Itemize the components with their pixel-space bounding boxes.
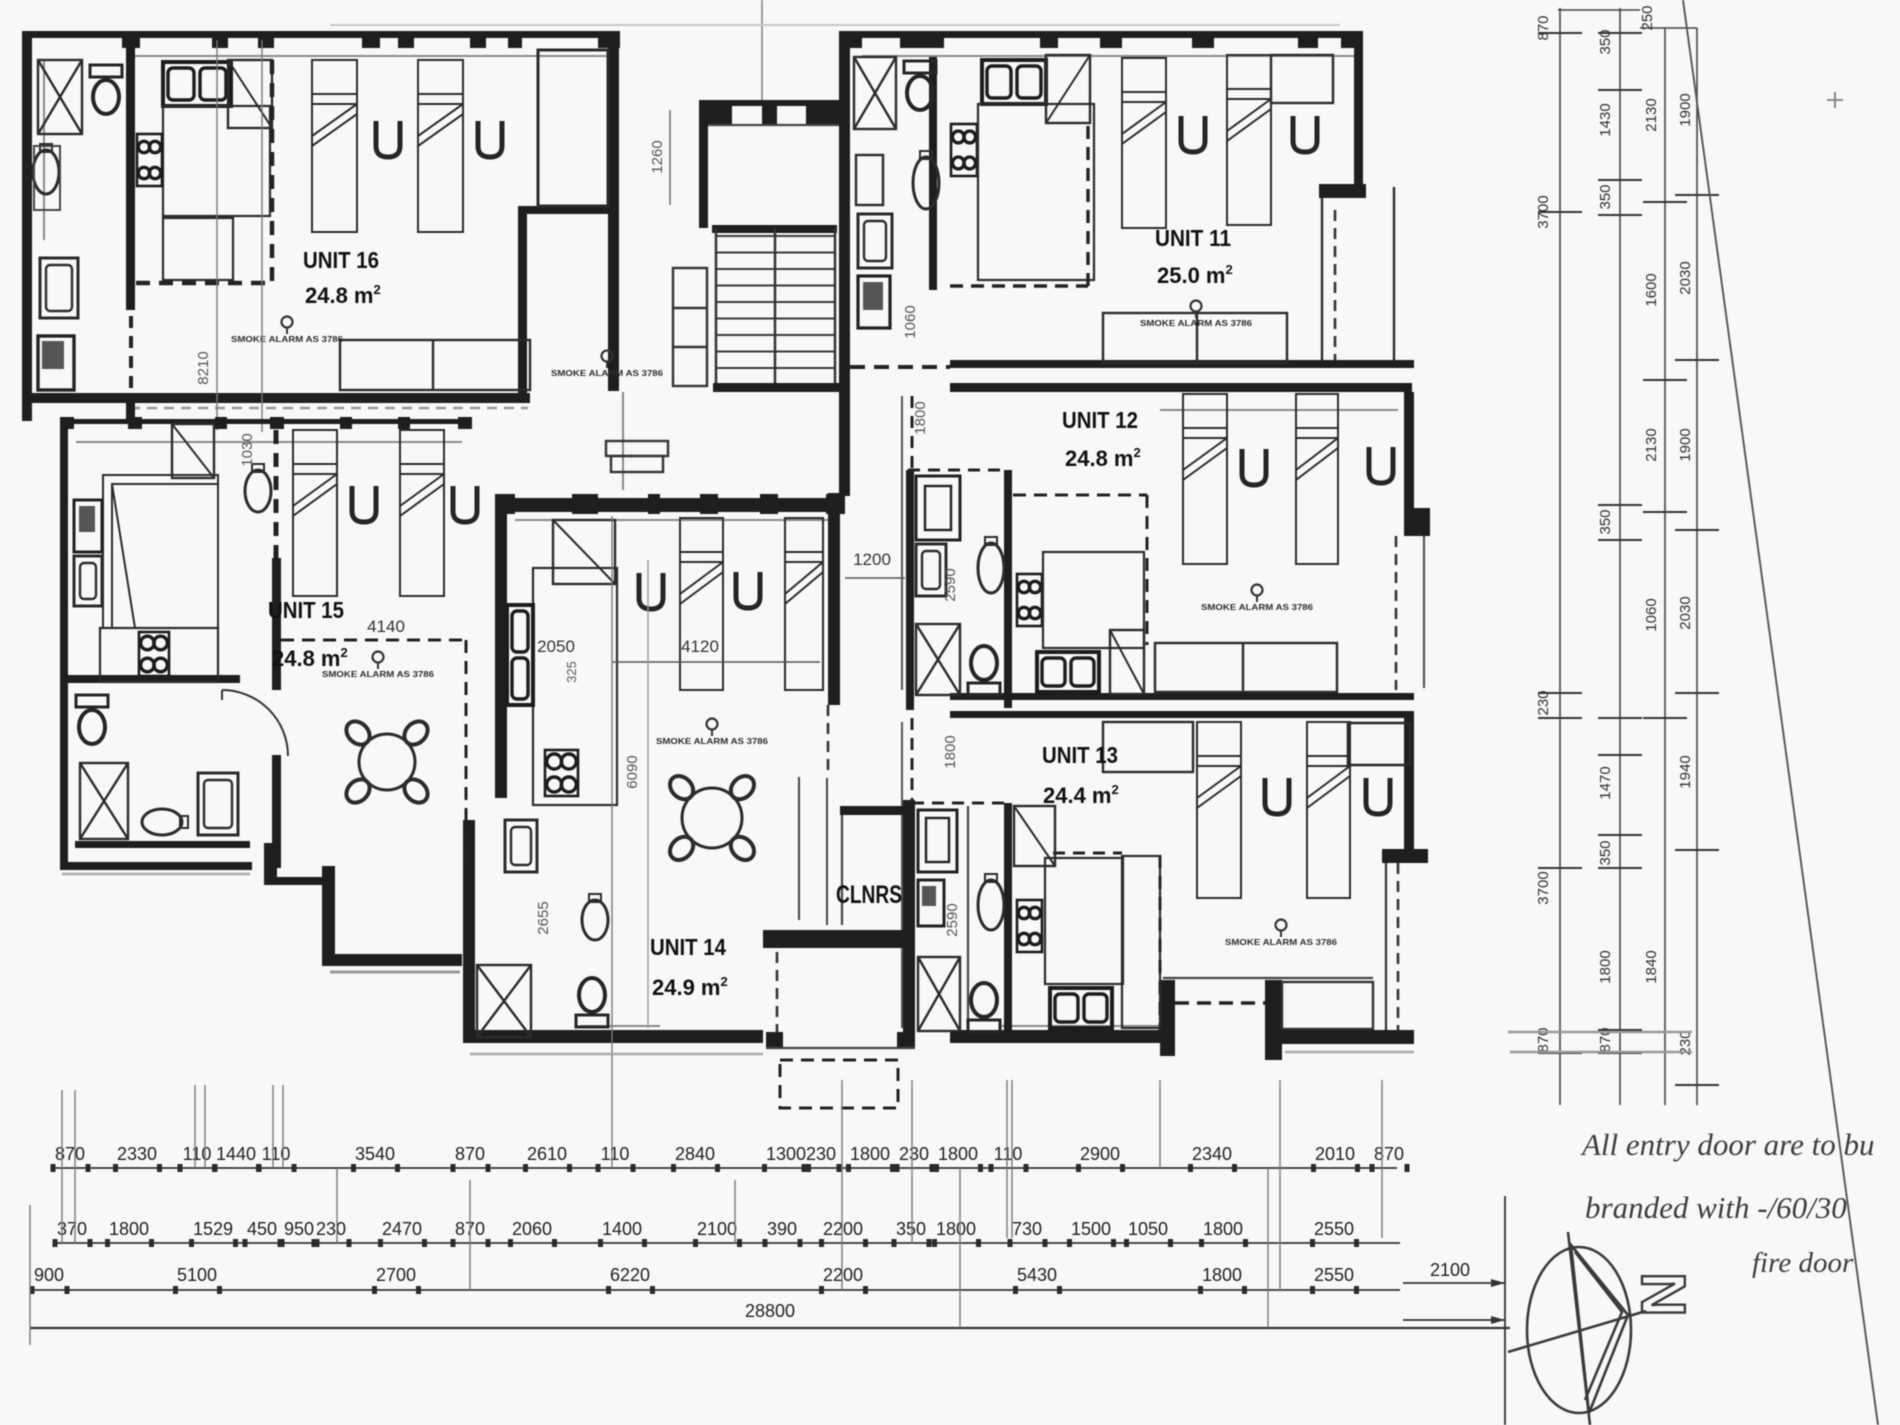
stove unit12 [1017,574,1042,626]
balcony dashed door unit11 [1334,210,1337,360]
chair 2 unit12 [1369,447,1393,483]
dashed corridor unit14 [827,705,830,776]
washing machine unit11 [858,214,892,268]
svg-text:1800: 1800 [912,401,929,434]
wardrobe unit16 [228,60,272,128]
svg-text:1500: 1500 [1071,1219,1111,1239]
bed 2 unit15 [400,430,444,596]
closet unit16 [538,50,608,206]
svg-text:2340: 2340 [1192,1144,1232,1164]
wall unit13 right lower double [1385,863,1387,1030]
bed 1 unit15 [293,430,337,596]
shower unit13 [918,957,960,1031]
svg-text:8210: 8210 [195,351,212,384]
wall unit15 lower bottom [322,954,462,966]
stove unit13 [1017,900,1042,952]
svg-text:3700: 3700 [1535,871,1552,904]
wall unit11 top [845,31,1363,38]
wall step unit16-unit15 [126,403,135,421]
cabinet unit11 [858,276,890,328]
stove unit11 [951,124,977,176]
smoke alarm unit11 [1140,301,1252,329]
svg-text:UNIT 13: UNIT 13 [1042,742,1118,768]
toilet unit14 [576,978,608,1027]
wall lobby left [699,100,708,228]
svg-text:6220: 6220 [610,1265,650,1285]
wardrobe unit15 [172,424,214,478]
svg-text:2100: 2100 [697,1219,737,1239]
svg-text:1940: 1940 [1677,755,1694,788]
wall unit15 step vertical [264,843,277,885]
dining table unit14 [665,771,758,864]
porch unit14 dashed left [776,952,779,1038]
laundry trough unit16 [38,336,74,390]
wall unit14 top [495,498,845,512]
kitchen sink unit11 [982,60,1046,104]
corridor thin lines [799,777,827,925]
svg-text:SMOKE ALARM AS 3786: SMOKE ALARM AS 3786 [322,669,434,679]
washer unit15 [198,773,238,835]
smoke alarm unit16 [231,317,343,345]
svg-text:24.8 m2: 24.8 m2 [272,645,348,671]
wall unit13 bath partition [1004,803,1012,1035]
svg-text:730: 730 [1012,1219,1042,1239]
basin unit12 [978,537,1004,593]
wardrobe unit14 [553,520,615,584]
chair 1 unit15 [352,486,376,522]
wall unit11 left [839,31,850,391]
dim row ticks [30,1164,1410,1294]
svg-text:1800: 1800 [938,1144,978,1164]
svg-text:2470: 2470 [382,1219,422,1239]
dim line 4120 [612,661,820,663]
svg-text:1300: 1300 [766,1144,806,1164]
svg-text:1800: 1800 [936,1219,976,1239]
right dim tick bars [1538,33,1719,1085]
svg-text:450: 450 [247,1219,277,1239]
basin unit16 [33,144,59,194]
bed 2 unit12 [1296,394,1338,564]
svg-text:350: 350 [1597,184,1614,209]
bed 1 unit11 [1122,58,1166,228]
basin nook unit15 [245,464,271,512]
wall unit13 right [1404,711,1414,851]
kitchen bench unit16 [163,106,270,216]
svg-text:28800: 28800 [745,1301,795,1321]
porch unit13 bottom wall [1282,1030,1414,1044]
svg-text:2590: 2590 [944,903,961,936]
svg-text:1800: 1800 [850,1144,890,1164]
wall lobby top [699,100,845,106]
kitchen bench unit12 [1043,552,1144,648]
wall under stairs [713,383,844,392]
arrowheads 2100 [1491,1279,1505,1324]
svg-text:UNIT 14: UNIT 14 [650,934,726,960]
wall unit12 bath partition [1004,470,1012,708]
washing machine unit16 [40,258,78,318]
wall unit15 inner dashed upper [274,430,279,560]
svg-text:2900: 2900 [1080,1144,1120,1164]
svg-text:350: 350 [896,1219,926,1239]
gray right tick row lines [1508,1032,1692,1052]
basin unit13 [978,874,1004,930]
svg-text:2130: 2130 [1643,98,1660,131]
svg-text:SMOKE ALARM AS 3786: SMOKE ALARM AS 3786 [656,736,768,746]
bed 1 unit14 [680,518,723,690]
dim row3 line [30,1289,1400,1291]
svg-text:2330: 2330 [117,1144,157,1164]
stair treads [716,236,835,385]
smoke alarm unit15 [322,652,434,680]
svg-text:110: 110 [994,1144,1023,1164]
chair 1 unit12 [1242,449,1266,485]
svg-text:SMOKE ALARM AS 3786: SMOKE ALARM AS 3786 [1201,602,1313,612]
window sill unit13 bottom [1000,1025,1160,1027]
porch unit13 bump room [1282,982,1373,1029]
wardrobe unit13 [1014,806,1055,866]
svg-text:1600: 1600 [1643,273,1660,306]
gray shadow under unit15 bottom [62,873,250,876]
dim row2 line [55,1242,1400,1244]
gray smear above top wall [330,24,1340,26]
plus mark [1827,92,1843,108]
chair 2 unit14 [736,572,760,608]
svg-text:5100: 5100 [177,1265,217,1285]
bed 2 unit16 [418,60,463,232]
svg-text:2030: 2030 [1677,261,1694,294]
wall unit11 right upper [1354,31,1363,197]
svg-text:2200: 2200 [823,1265,863,1285]
witness line 6090 [647,560,649,1028]
thin left wall unit13 [901,722,903,1028]
svg-text:1440: 1440 [216,1144,256,1164]
window jambs unit11 top [845,31,862,48]
kitchen dashed zone unit12 [1013,494,1147,497]
svg-text:6090: 6090 [624,755,641,788]
toilet unit15 [76,695,108,744]
svg-text:250: 250 [1639,5,1656,30]
porch unit14 top wall [763,930,903,948]
svg-text:1060: 1060 [902,305,919,338]
CLNRS closet walls [840,800,915,1048]
cabinet unit15 [74,556,102,606]
kitchen sink unit12 [1037,652,1099,692]
shower unit11 [854,57,896,129]
wall unit13 bottom [950,1030,1163,1043]
chair 2 unit16 [478,121,502,157]
svg-text:390: 390 [767,1219,797,1239]
party wall unit11 bottom [950,360,1414,368]
bed 2 unit14 [785,518,823,690]
dashed boundary unit15 mid [281,639,466,642]
kitchen sink unit13 [1050,988,1112,1028]
unit15 bed [103,475,218,628]
cabinet unit12 [916,476,960,540]
wall unit16 closet partition [518,206,619,214]
svg-text:230: 230 [1535,690,1552,715]
door arc unit15 [222,690,288,756]
right dim chain lines [1558,8,1697,1105]
kitchen bench unit15 [100,628,218,682]
svg-text:All entry door are to bu: All entry door are to bu [1580,1127,1874,1162]
party wall unit13 top b [950,711,1414,718]
smoke alarm unit13 [1225,920,1337,948]
cabinet unit13 [918,810,957,872]
wall unit15 inner lower [272,755,281,868]
witness line lobby x762 [761,0,763,100]
svg-text:230: 230 [316,1219,346,1239]
svg-text:SMOKE ALARM AS 3786: SMOKE ALARM AS 3786 [231,334,343,344]
svg-text:N: N [1628,1272,1697,1317]
bed 1 unit12 [1183,394,1227,564]
svg-text:2030: 2030 [1677,596,1694,629]
desk unit13 [1103,722,1193,772]
svg-text:110: 110 [183,1144,212,1164]
stove unit15 [139,632,169,676]
svg-text:2590: 2590 [942,568,959,601]
svg-text:2550: 2550 [1314,1219,1354,1239]
svg-text:350: 350 [1597,29,1614,54]
wall unit12 bath left [906,470,914,710]
svg-text:1800: 1800 [109,1219,149,1239]
CLNRS left line [841,815,843,925]
bench seat low unit13 [1122,856,1160,1028]
desk unit11 [1271,55,1333,103]
wall stair top [712,225,837,233]
svg-text:870: 870 [455,1144,485,1164]
basin unit11 [913,151,939,209]
svg-text:3540: 3540 [355,1144,395,1164]
wall unit11 bath partition [929,57,937,290]
wall unit15 inner upper [272,558,281,690]
dim row1 line [55,1167,1397,1169]
chair 2 unit11 [1293,116,1317,152]
balcony unit12 edge [1423,536,1425,688]
stair handrail block [673,268,707,386]
shower unit12 [916,624,960,695]
svg-text:2100: 2100 [1430,1260,1470,1280]
svg-text:2200: 2200 [823,1219,863,1239]
svg-text:950: 950 [284,1219,314,1239]
wardrobe unit12 [1110,630,1144,694]
svg-text:2050: 2050 [537,637,575,656]
wall unit12 top [950,383,1412,392]
bed 2 unit11 [1227,55,1271,225]
svg-text:2060: 2060 [512,1219,552,1239]
svg-text:25.0 m2: 25.0 m2 [1157,262,1233,288]
party wall unit12 bottom a [950,693,1414,700]
svg-text:870: 870 [1374,1144,1404,1164]
svg-text:UNIT 15: UNIT 15 [268,597,344,623]
kitchen bench unit14 [533,568,617,805]
dim line 1200 [845,577,905,579]
dim 2100 arrow line [1403,1196,1505,1425]
unit13 bottom thin line [1163,977,1373,979]
porch unit13 center wall [1265,980,1282,1060]
svg-text:24.4 m2: 24.4 m2 [1043,782,1119,808]
svg-text:1430: 1430 [1597,103,1614,136]
svg-text:110: 110 [601,1144,630,1164]
window sill unit16 left [43,60,45,240]
shelf unit11 [856,155,883,205]
svg-text:24.9 m2: 24.9 m2 [652,974,728,1000]
svg-text:SMOKE ALARM AS 3786: SMOKE ALARM AS 3786 [1140,318,1252,328]
thin left wall unit12 [901,396,903,690]
stair side rails [716,228,835,392]
svg-text:1529: 1529 [193,1219,233,1239]
wall unit14 left lower [463,820,475,1043]
svg-text:1900: 1900 [1677,93,1694,126]
chair 1 unit13 [1265,778,1289,814]
toilet unit12 [968,646,1000,695]
svg-text:24.8 m2: 24.8 m2 [305,282,381,308]
svg-text:24.8 m2: 24.8 m2 [1065,445,1141,471]
svg-text:fire door: fire door [1752,1247,1854,1279]
svg-text:UNIT 11: UNIT 11 [1155,225,1231,251]
closet unit13 [1348,723,1410,765]
chair 1 unit14 [639,573,663,609]
window sill unit16 top [130,55,608,57]
svg-text:1400: 1400 [602,1219,642,1239]
svg-text:5430: 5430 [1017,1265,1057,1285]
chair 2 unit15 [453,486,477,522]
smoke alarm unit12 [1201,585,1313,613]
wall unit14 bottom [463,1030,763,1043]
svg-text:110: 110 [262,1144,291,1164]
bed 1 unit13 [1197,722,1241,898]
chair 2 unit13 [1366,778,1390,814]
kitchen dashed zone unit13 [911,718,914,801]
svg-text:1050: 1050 [1128,1219,1168,1239]
dim line 1260 [669,110,671,205]
svg-text:CLNRS: CLNRS [836,881,902,909]
shower unit15 [80,763,128,839]
svg-text:SMOKE ALARM AS 3786: SMOKE ALARM AS 3786 [1225,937,1337,947]
toilet unit16 [90,65,122,114]
dashed entry unit13 [1175,1001,1265,1004]
bed 1 unit16 [312,60,357,232]
wall unit16 bathroom partition [126,38,135,310]
svg-text:1800: 1800 [1202,1265,1242,1285]
stove unit16 [137,134,162,186]
fridge unit15 [74,500,102,552]
wall unit12 right [1404,392,1414,512]
svg-text:1200: 1200 [853,550,891,569]
basin unit14 [582,894,608,940]
svg-text:2610: 2610 [527,1144,567,1164]
porch unit14 dashed box [780,1060,898,1108]
shower unit16 [38,60,82,134]
svg-text:1800: 1800 [942,735,959,768]
hatch line below unit15 bottom [330,971,460,974]
gray shadow under unit13 bottom [1285,1051,1414,1054]
window jambs unit16 top [122,31,140,48]
svg-text:2655: 2655 [535,901,552,934]
svg-text:1900: 1900 [1677,428,1694,461]
svg-text:1800: 1800 [1203,1219,1243,1239]
svg-text:870: 870 [1535,15,1552,40]
wall unit16 inner right [518,206,527,403]
chair 1 unit11 [1181,116,1205,152]
dashed continuation bathroom partition unit16 [129,316,133,392]
shower unit14 [477,965,531,1037]
svg-text:870: 870 [55,1144,85,1164]
wall unit16 top [22,31,620,38]
wall unit13 right lower dashed [1397,863,1400,1030]
dim row4 line [30,1327,1510,1329]
bench seat unit12 [1155,643,1337,692]
svg-text:branded with -/60/30: branded with -/60/30 [1585,1190,1847,1225]
svg-text:325: 325 [564,661,579,683]
svg-text:UNIT 12: UNIT 12 [1062,407,1138,433]
svg-text:350: 350 [1597,840,1614,865]
bench seat unit16 [340,340,530,390]
wall unit15 bottom b [60,862,252,870]
svg-text:2700: 2700 [376,1265,416,1285]
svg-text:900: 900 [34,1265,64,1285]
wall unit16 left [22,31,32,421]
bed 2 unit13 [1307,722,1350,898]
svg-text:4140: 4140 [367,617,405,636]
wardrobe unit11 [1046,55,1090,123]
svg-text:1260: 1260 [649,140,666,173]
porch unit14 bottom line [766,1047,915,1049]
chair 1 unit16 [376,121,400,157]
wall unit13 nib [1382,849,1428,863]
bench top unit16 [163,218,233,280]
svg-text:1840: 1840 [1643,950,1660,983]
witness line x262 [261,40,263,432]
smoke alarm lobby [551,351,663,379]
svg-text:4120: 4120 [681,637,719,656]
toilet unit13 [968,983,1000,1032]
wall unit14 right [828,493,840,705]
wall unit15 left [60,420,68,870]
svg-text:230: 230 [899,1144,929,1164]
lobby top inner line [699,124,845,126]
svg-text:2550: 2550 [1314,1265,1354,1285]
window sill unit15 top [76,441,462,443]
window sill unit14 bottom [580,1025,660,1027]
svg-text:1030: 1030 [239,433,256,466]
svg-text:1800: 1800 [1597,950,1614,983]
svg-text:230: 230 [806,1144,836,1164]
wall unit16 right / lobby left [608,31,619,391]
balcony unit12 dashed [1395,536,1398,690]
witness verticals bottom [30,516,1382,1345]
svg-text:2130: 2130 [1643,428,1660,461]
wall unit16 bottom [22,393,530,403]
wall unit13 bath left thin [967,806,969,1030]
svg-text:350: 350 [1597,509,1614,534]
window sill unit14 top [515,519,840,521]
cabinet b unit13 [918,880,944,926]
dashed boundary unit15 right [465,640,468,868]
basin unit15 [142,809,188,835]
gray shadow under unit14 bottom [470,1053,763,1056]
kitchen sink unit14 [507,605,533,705]
kitchen bench unit11 [978,104,1094,280]
kitchen dashed zone unit11 [950,284,1088,287]
wall unit14 left upper [495,498,507,798]
wall unit15 top [60,419,472,424]
bench seat unit11 [1103,313,1287,363]
svg-text:2010: 2010 [1315,1144,1355,1164]
svg-text:1060: 1060 [1643,598,1660,631]
dashed wall lobby-unit11 [850,365,950,369]
washer unit12 [916,544,946,596]
wall unit15 bottom a [75,841,250,848]
